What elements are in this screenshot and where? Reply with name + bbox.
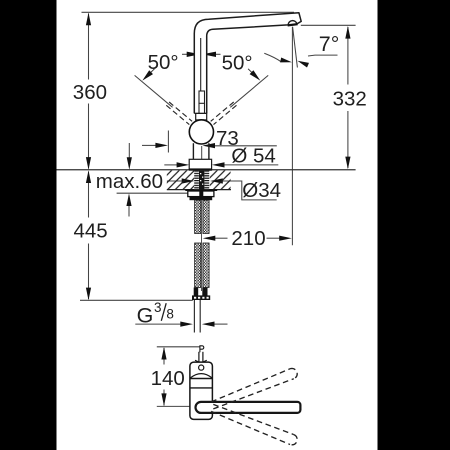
- svg-text:445: 445: [74, 219, 108, 242]
- svg-text:G: G: [137, 303, 154, 327]
- svg-text:50°: 50°: [148, 51, 179, 74]
- svg-text:Ø 54: Ø 54: [231, 144, 275, 167]
- svg-text:7°: 7°: [319, 32, 340, 56]
- svg-text:3: 3: [154, 300, 162, 315]
- svg-text:360: 360: [73, 81, 107, 104]
- svg-text:50°: 50°: [222, 51, 253, 74]
- svg-text:210: 210: [231, 227, 265, 250]
- svg-text:max.60: max.60: [96, 170, 163, 193]
- svg-text:Ø34: Ø34: [242, 179, 281, 202]
- svg-text:332: 332: [333, 88, 367, 111]
- svg-text:140: 140: [151, 367, 185, 390]
- svg-text:8: 8: [166, 307, 174, 322]
